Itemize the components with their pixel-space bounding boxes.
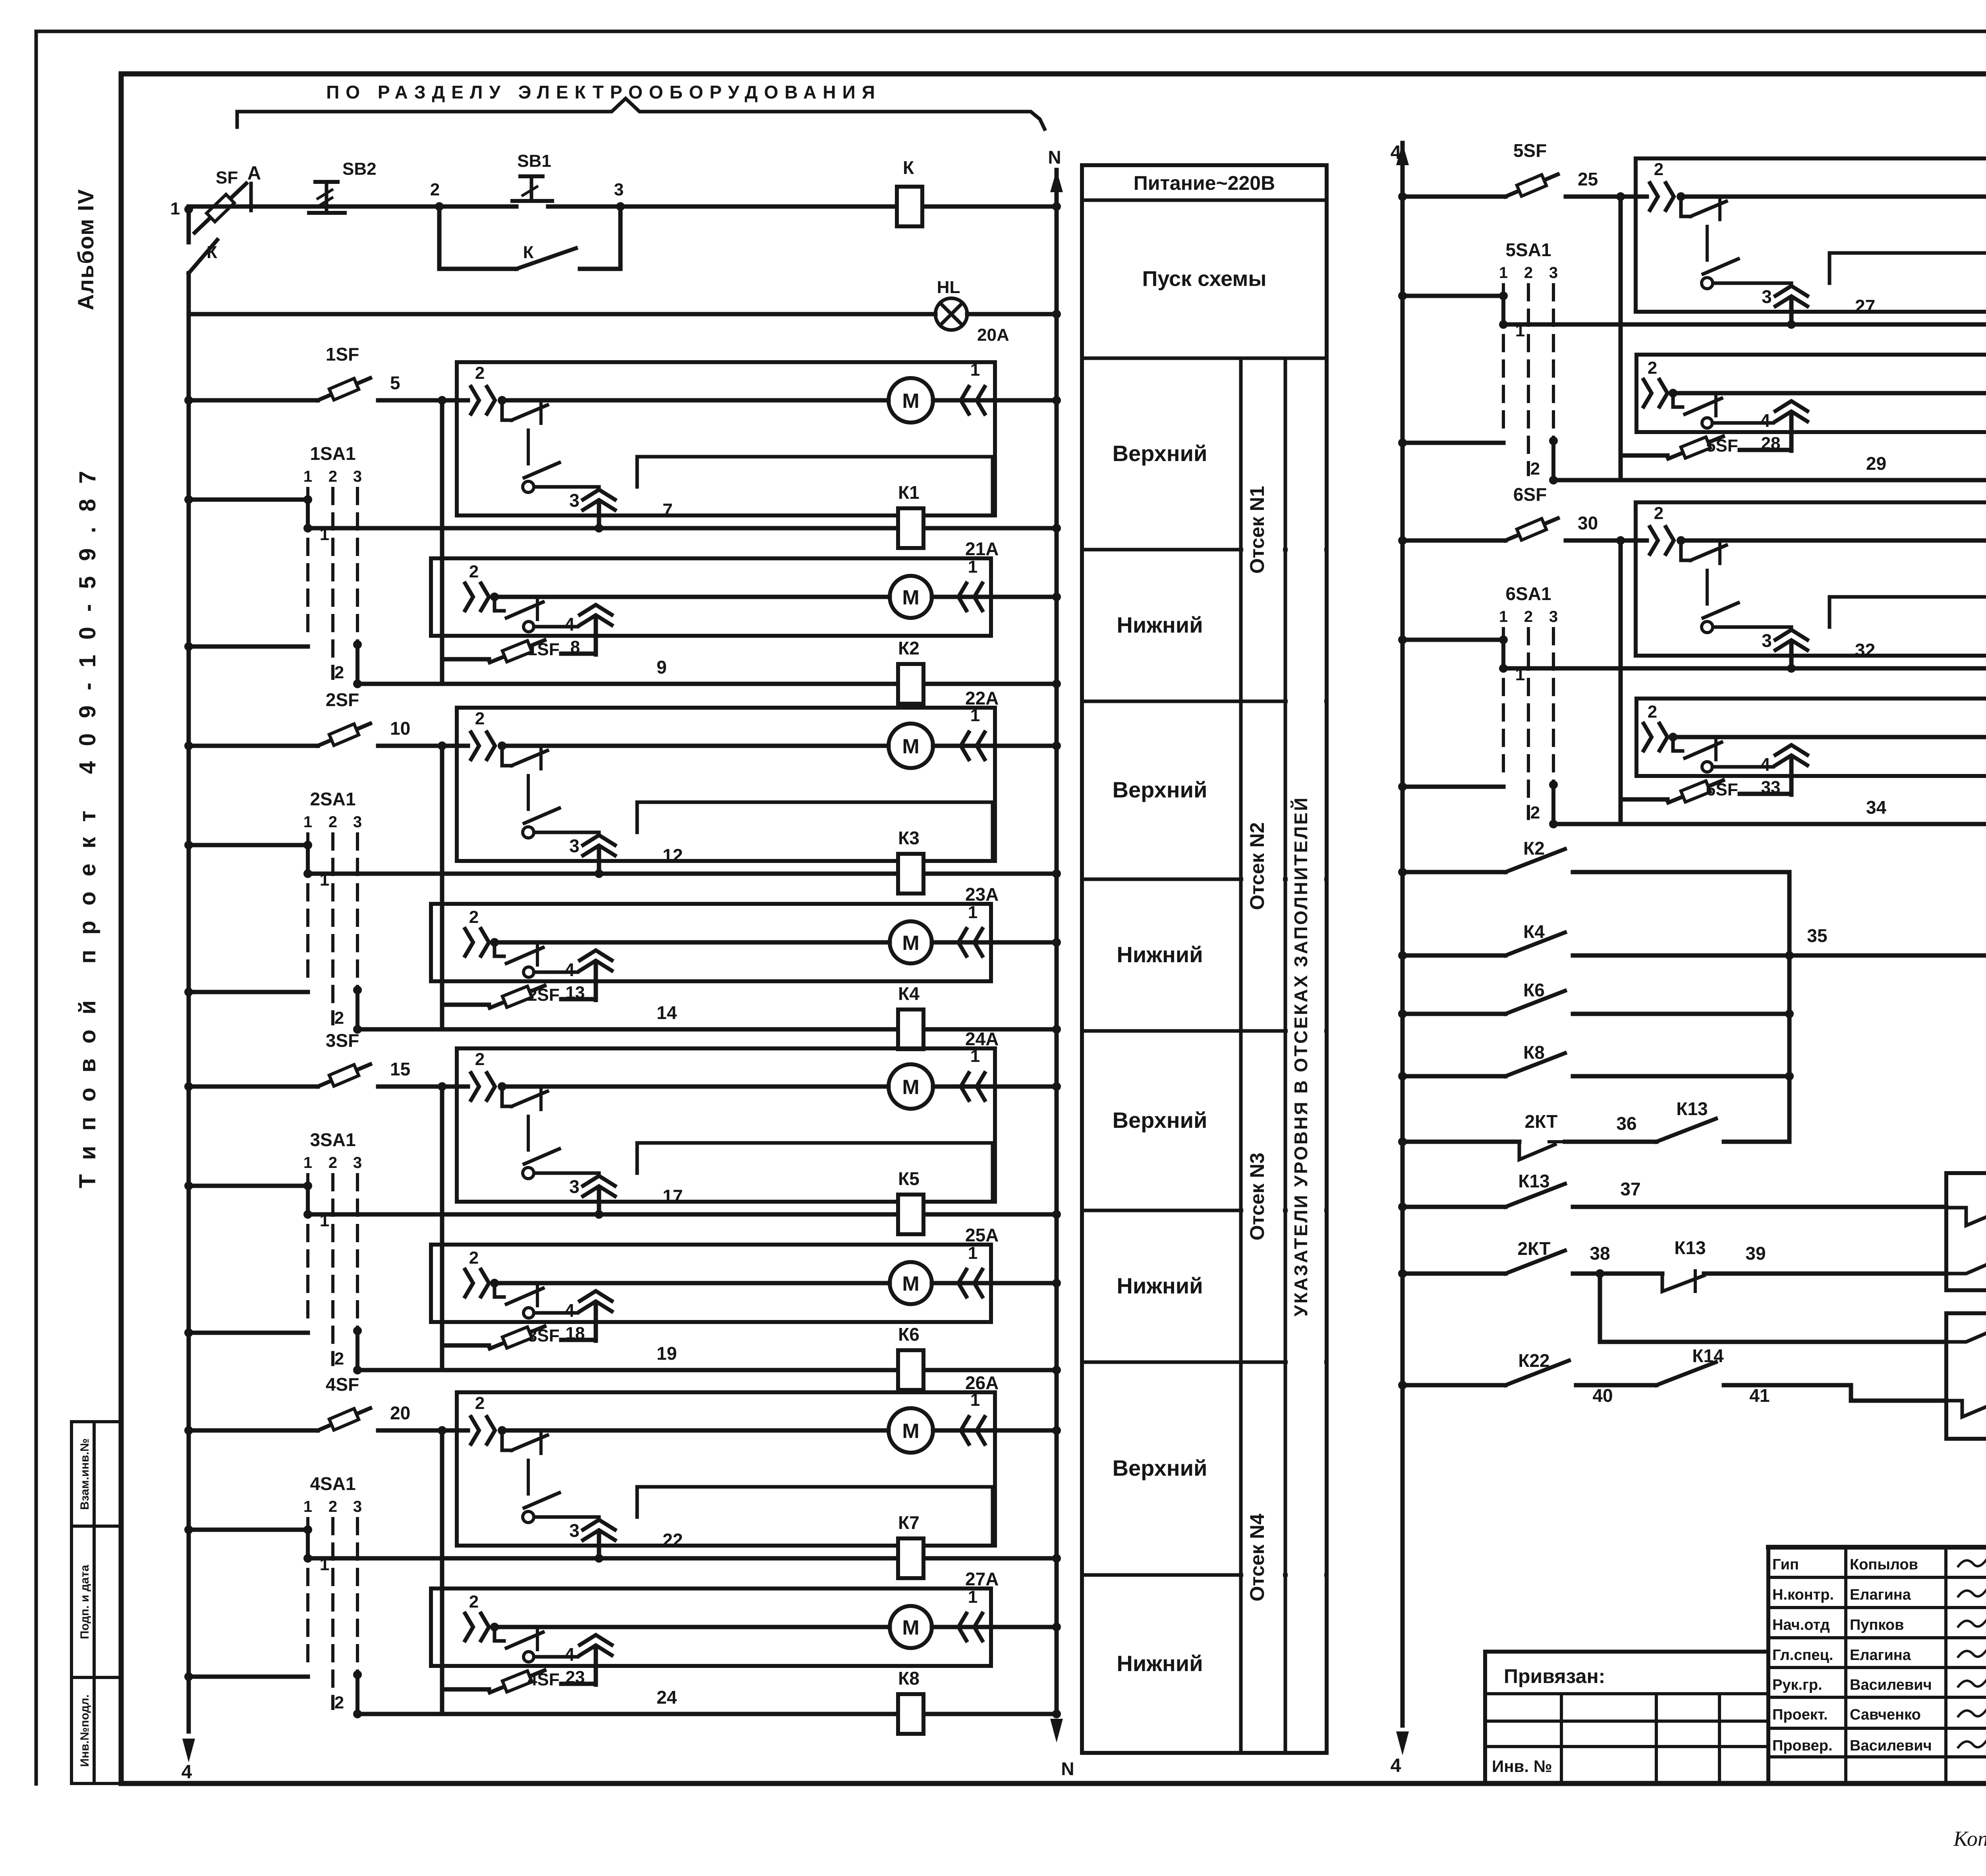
contact К6 rung [1398, 980, 1794, 1018]
svg-text:Гип: Гип [1772, 1556, 1799, 1573]
svg-text:14: 14 [657, 1002, 677, 1023]
middle table frame [1082, 165, 1327, 1753]
svg-text:М: М [902, 1272, 919, 1295]
middle table row label Нижний 4 [1117, 1651, 1203, 1676]
svg-text:1: 1 [968, 557, 978, 577]
svg-text:К4: К4 [1523, 921, 1545, 942]
coil К8 [898, 1668, 923, 1734]
svg-text:36: 36 [1616, 1113, 1636, 1134]
svg-text:SB1: SB1 [517, 151, 551, 171]
contact 2КТ rung 38 [1398, 1238, 1610, 1278]
svg-text:3: 3 [353, 813, 362, 831]
svg-text:25: 25 [1578, 169, 1598, 189]
svg-text:К: К [207, 243, 217, 262]
svg-text:К6: К6 [898, 1324, 920, 1345]
svg-text:SF: SF [216, 168, 238, 187]
svg-text:4: 4 [182, 1762, 192, 1783]
svg-text:1: 1 [320, 870, 329, 890]
svg-text:1: 1 [970, 1390, 980, 1410]
wire 27 [1503, 296, 1986, 329]
sensor contacts upper box 6 [1636, 504, 1791, 633]
signature row Нач.отд Пупков [1772, 1616, 1986, 1633]
svg-text:Провер.: Провер. [1772, 1737, 1833, 1754]
svg-text:М: М [902, 735, 919, 758]
motor M upper 1 () [502, 378, 933, 423]
svg-text:1SF: 1SF [326, 344, 359, 365]
node 1 on left bus [170, 199, 193, 218]
svg-text:К2: К2 [1523, 838, 1545, 859]
bypass breaker 5SF (wire 28) [1621, 434, 1791, 459]
svg-text:4SF: 4SF [326, 1374, 359, 1395]
svg-text:5: 5 [390, 372, 400, 393]
svg-text:ПО РАЗДЕЛУ ЭЛЕКТРООБОРУДОВАН: ПО РАЗДЕЛУ ЭЛЕКТРООБОРУДОВАНИЯ [326, 82, 881, 102]
svg-text:Отсек N4: Отсек N4 [1246, 1513, 1268, 1601]
svg-text:2КТ: 2КТ [1525, 1111, 1558, 1132]
sensor contacts lower box 3 [465, 1248, 578, 1318]
selector 5SA1 pole 1 (node 1) [1398, 291, 1525, 340]
svg-text:20: 20 [390, 1403, 410, 1423]
svg-text:Привязан:: Привязан: [1504, 1665, 1605, 1687]
arrow contact 1 upper 4 [933, 1390, 1061, 1444]
breaker SF on left bus [195, 168, 246, 233]
shelf wire upper box 6 [1830, 597, 1986, 654]
svg-text:2: 2 [1530, 803, 1540, 822]
wire 24 [357, 1687, 1061, 1718]
svg-text:М: М [902, 932, 919, 955]
middle table label Отсек N1 [1246, 486, 1268, 573]
selector 6SA1 [1499, 583, 1558, 818]
title block top line [1768, 1545, 1986, 1550]
svg-text:2: 2 [328, 468, 337, 485]
feed-down wire 1 (to lower box and wire 9) [440, 400, 444, 684]
coil К2 [898, 638, 923, 704]
coil K [897, 157, 922, 226]
selector 1SA1 pole 2 (node 2) [184, 640, 362, 688]
svg-text:21А: 21А [965, 538, 999, 559]
svg-text:32: 32 [1855, 640, 1875, 660]
svg-text:23А: 23А [965, 884, 999, 905]
svg-text:3SF: 3SF [326, 1030, 359, 1051]
middle table row label Нижний 2 [1117, 942, 1203, 967]
self-hold contact K branch [439, 207, 620, 269]
sensor contacts upper box 2 [457, 709, 599, 838]
svg-text:К4: К4 [898, 983, 920, 1004]
level arrow 4 lower box 5 [1760, 401, 1807, 451]
upper level-sensor box Отсек N3 Верхний [457, 1029, 999, 1202]
signature row Н.контр. Елагина [1772, 1586, 1986, 1603]
svg-text:6SF: 6SF [1513, 484, 1547, 505]
svg-text:1: 1 [970, 360, 980, 380]
coil К3 [898, 828, 923, 894]
svg-text:М: М [902, 586, 919, 609]
svg-text:3: 3 [353, 1154, 362, 1172]
К14 internals [1946, 1183, 1986, 1274]
motor M upper 6 (30А) [1681, 518, 1986, 563]
wire rung 5SF to box [1616, 192, 1636, 201]
svg-text:Отсек N3: Отсек N3 [1246, 1152, 1268, 1240]
svg-text:2SF: 2SF [326, 689, 359, 710]
svg-text:10: 10 [390, 718, 410, 739]
selector 3SA1 [303, 1129, 362, 1365]
wire 19 [357, 1343, 1061, 1374]
svg-text:9: 9 [657, 657, 667, 677]
svg-text:2: 2 [1648, 358, 1657, 378]
svg-text:2: 2 [1530, 459, 1540, 479]
svg-text:3: 3 [353, 1498, 362, 1515]
level arrow 3 upper box 3 [569, 1176, 615, 1214]
arrow contact 1 upper 1 [933, 360, 1061, 414]
shelf wire upper box 4 [637, 1487, 993, 1544]
svg-text:К2: К2 [898, 638, 920, 658]
handwritten Коп [1953, 1827, 1986, 1851]
svg-text:1SF: 1SF [527, 640, 560, 659]
svg-text:4SA1: 4SA1 [310, 1473, 355, 1494]
margin label Альбом IV [73, 189, 98, 310]
sensor contacts lower box 4 [465, 1592, 578, 1662]
svg-text:Отсек N1: Отсек N1 [1246, 486, 1268, 573]
middle table inner columns [1241, 358, 1324, 1753]
svg-text:К14: К14 [1692, 1345, 1724, 1366]
svg-text:24: 24 [657, 1687, 677, 1708]
svg-text:4: 4 [564, 1300, 575, 1321]
level arrow 4 lower box 2 [564, 950, 612, 1000]
svg-text:4: 4 [564, 1644, 575, 1665]
svg-text:1: 1 [1499, 608, 1508, 625]
svg-text:1: 1 [968, 1587, 978, 1607]
node A label (top of left bus) [247, 163, 261, 210]
svg-text:Василевич: Василевич [1850, 1737, 1932, 1754]
arrow contact 1 upper 3 [933, 1046, 1061, 1100]
breaker 4SF [184, 1374, 442, 1435]
svg-text:Савченко: Савченко [1850, 1706, 1921, 1723]
feed-down wire 2 (to lower box and wire 14) [440, 746, 444, 1029]
svg-text:К3: К3 [898, 828, 920, 848]
wire collector (К2..К8 to 35) [1787, 872, 1792, 1142]
svg-text:Н.контр.: Н.контр. [1772, 1586, 1834, 1603]
selector 2SA1 pole 2 (node 2) [184, 986, 362, 1034]
level arrow 3 upper box 4 [569, 1520, 615, 1558]
feed-down wire 5 (to lower box and wire 29) [1619, 197, 1623, 480]
bypass breaker 4SF (wire 23) [442, 1668, 596, 1693]
svg-text:2: 2 [334, 1349, 344, 1368]
svg-text:М: М [902, 1076, 919, 1099]
level arrow 3 upper box 2 [569, 835, 615, 874]
svg-text:HL: HL [937, 278, 960, 297]
svg-text:1: 1 [970, 706, 980, 725]
svg-text:3: 3 [1762, 286, 1772, 307]
svg-text:3SA1: 3SA1 [310, 1129, 355, 1150]
contact К13 rung 37 [1398, 1171, 1946, 1211]
svg-text:39: 39 [1745, 1243, 1766, 1264]
sensor contacts upper box 1 [457, 363, 599, 492]
svg-text:34: 34 [1866, 797, 1887, 818]
svg-text:Проект.: Проект. [1772, 1706, 1828, 1723]
svg-text:4: 4 [564, 959, 575, 980]
svg-text:К13: К13 [1676, 1098, 1708, 1119]
margin stamp boxes (Взам.инв.№ / Подп. и дата / Инв.№ подл.) [71, 1422, 121, 1783]
arrow contact 1 lower 2 [932, 903, 1061, 956]
svg-text:4: 4 [1391, 1755, 1401, 1776]
svg-text:2: 2 [1648, 702, 1657, 722]
wire 12 [308, 845, 1061, 878]
svg-text:Нач.отд: Нач.отд [1772, 1617, 1830, 1633]
svg-text:1: 1 [320, 525, 329, 544]
svg-text:3: 3 [569, 1520, 580, 1541]
contact К14 rung 41 [1656, 1345, 1946, 1406]
pushbutton SB2 (stop) [309, 159, 377, 213]
level arrow 4 lower box 1 [564, 605, 612, 654]
svg-text:15: 15 [390, 1059, 410, 1079]
bypass breaker 2SF (wire 13) [442, 983, 596, 1008]
svg-text:41: 41 [1749, 1385, 1770, 1406]
coil К4 [898, 983, 923, 1049]
svg-text:1: 1 [170, 199, 180, 218]
svg-text:20А: 20А [977, 325, 1009, 345]
selector 3SA1 pole 2 (node 2) [184, 1326, 362, 1374]
svg-text:5SF: 5SF [1513, 140, 1547, 161]
svg-text:2: 2 [328, 813, 337, 831]
left neutral bus N vertical [1048, 147, 1074, 1779]
svg-text:2: 2 [469, 907, 479, 927]
contact К13 (NC) rung 39 [1600, 1237, 1946, 1291]
svg-text:37: 37 [1620, 1179, 1640, 1199]
svg-text:Василевич: Василевич [1850, 1677, 1932, 1693]
coil К5 [898, 1168, 923, 1234]
svg-text:Типовой проект 409-10-59.87: Типовой проект 409-10-59.87 [75, 456, 100, 1188]
svg-text:М: М [902, 1420, 919, 1443]
motor M lower 5 (29А) [1673, 372, 1986, 414]
svg-text:7: 7 [663, 500, 673, 520]
motor M lower 6 (31А) [1673, 716, 1986, 758]
svg-text:Нижний: Нижний [1117, 1651, 1203, 1676]
relay box К14 [1946, 1147, 1986, 1290]
svg-text:Копылов: Копылов [1850, 1556, 1918, 1573]
svg-text:2SA1: 2SA1 [310, 789, 355, 809]
upper level-sensor box Отсек N4 Верхний [457, 1372, 999, 1546]
motor M lower 1 (21А) [495, 576, 932, 618]
svg-text:УКАЗАТЕЛИ УРОВНЯ В ОТСЕК: УКАЗАТЕЛИ УРОВНЯ В ОТСЕКАХ ЗАПОЛНИТЕЛЕЙ [1291, 796, 1311, 1316]
svg-text:К7: К7 [898, 1512, 920, 1533]
wire rung 2SF to box [438, 741, 457, 750]
motor M upper 4 (26А) [502, 1408, 933, 1453]
selector 1SA1 [303, 443, 362, 678]
svg-text:N: N [1061, 1758, 1074, 1779]
svg-text:1: 1 [303, 1498, 312, 1515]
margin label Типовой проект 409-10-59.87 [75, 456, 100, 1188]
svg-text:2: 2 [469, 1592, 479, 1612]
svg-text:25А: 25А [965, 1225, 999, 1245]
svg-text:27: 27 [1855, 296, 1875, 317]
upper level-sensor box Отсек N2 Верхний [457, 688, 999, 861]
svg-text:Коп. Реий: Коп. Реий [1953, 1827, 1986, 1851]
svg-text:5SF: 5SF [1706, 436, 1738, 455]
svg-text:К1: К1 [898, 482, 920, 503]
svg-text:2: 2 [475, 1393, 485, 1413]
svg-text:1: 1 [968, 1243, 978, 1263]
wire 34 [1553, 797, 1986, 828]
wire 17 [308, 1186, 1061, 1219]
selector 1SA1 pole 1 (node 1) [184, 495, 329, 544]
sensor contacts upper box 4 [457, 1393, 599, 1523]
sensor contacts lower box 2 [465, 907, 578, 977]
svg-text:2: 2 [1524, 264, 1533, 282]
middle table row label Верхний 3 [1113, 1108, 1207, 1133]
lower level-sensor box Отсек N3 Нижний [431, 1225, 999, 1322]
wire 22 [308, 1530, 1061, 1563]
selector 2SA1 [303, 789, 362, 1024]
svg-text:Пупков: Пупков [1850, 1617, 1904, 1633]
feed-down wire 3 (to lower box and wire 19) [440, 1087, 444, 1370]
wire start rung [189, 202, 1061, 211]
svg-text:Отсек N2: Отсек N2 [1246, 822, 1268, 910]
selector 3SA1 pole 1 (node 1) [184, 1181, 329, 1230]
svg-text:4SF: 4SF [527, 1670, 560, 1689]
svg-text:2: 2 [475, 363, 485, 383]
svg-text:30: 30 [1578, 513, 1598, 533]
svg-text:Пуск схемы: Пуск схемы [1142, 267, 1267, 291]
signature row Гип Копылов [1772, 1556, 1986, 1573]
svg-text:Верхний: Верхний [1113, 777, 1207, 802]
middle table label Питание ~220В [1134, 172, 1275, 194]
pushbutton SB1 (start) [512, 151, 552, 201]
breaker 5SF [1398, 140, 1621, 201]
svg-text:Верхний: Верхний [1113, 1455, 1207, 1480]
wire 7 [308, 500, 1061, 533]
svg-text:1SA1: 1SA1 [310, 443, 355, 464]
arrow contact 1 lower 4 [932, 1587, 1061, 1641]
svg-text:М: М [902, 390, 919, 413]
svg-text:6SA1: 6SA1 [1505, 583, 1551, 604]
middle table row label Нижний 3 [1117, 1273, 1203, 1298]
level arrow 4 lower box 3 [564, 1291, 612, 1341]
contact 2КТ rung 36 [1398, 1111, 1656, 1160]
svg-text:2: 2 [1524, 608, 1533, 625]
left bus A vertical [182, 314, 195, 1783]
svg-text:40: 40 [1592, 1385, 1613, 1406]
svg-text:Инв. №: Инв. № [1492, 1757, 1552, 1776]
feed-down wire 6 (to lower box and wire 34) [1619, 540, 1623, 824]
svg-text:2: 2 [328, 1498, 337, 1515]
svg-text:Рук.гр.: Рук.гр. [1772, 1677, 1822, 1693]
svg-text:Подп. и дата: Подп. и дата [78, 1565, 91, 1639]
sensor contacts lower box 1 [465, 562, 578, 632]
svg-text:3: 3 [1549, 264, 1558, 282]
svg-text:К13: К13 [1674, 1237, 1706, 1258]
node 2 on start rung [430, 180, 444, 211]
svg-text:1: 1 [320, 1555, 329, 1574]
svg-text:Верхний: Верхний [1113, 441, 1207, 466]
svg-text:3: 3 [569, 836, 580, 856]
svg-text:6SF: 6SF [1706, 780, 1738, 799]
selector 5SA1 pole 2 (node 2) [1398, 436, 1558, 484]
svg-text:К8: К8 [898, 1668, 920, 1689]
motor M lower 3 (25А) [495, 1262, 932, 1304]
svg-text:2SF: 2SF [527, 985, 560, 1005]
signature row Проект. Савченко [1772, 1706, 1986, 1723]
svg-text:К6: К6 [1523, 980, 1545, 1000]
lower level-sensor box Отсек N6 Нижний [1636, 679, 1986, 776]
svg-text:2КТ: 2КТ [1518, 1238, 1551, 1259]
svg-text:1: 1 [1515, 665, 1525, 684]
middle table label Отсек N3 [1246, 1152, 1268, 1240]
middle table row label Нижний 1 [1117, 612, 1203, 637]
К15 internals [1946, 1326, 1986, 1428]
wire 9 [357, 657, 1061, 688]
lamp HL [935, 278, 967, 330]
wire rung 3SF to box [438, 1082, 457, 1091]
upper level-sensor box Отсек N6 Верхний [1636, 483, 1986, 656]
svg-text:1: 1 [320, 1211, 329, 1230]
svg-text:2: 2 [475, 1050, 485, 1069]
wire rung 4SF to box [438, 1426, 457, 1435]
selector 4SA1 [303, 1473, 362, 1708]
selector 6SA1 pole 1 (node 1) [1398, 635, 1525, 684]
svg-text:А: А [247, 163, 261, 184]
middle table row label Верхний 1 [1113, 441, 1207, 466]
svg-text:3: 3 [353, 468, 362, 485]
selector 5SA1 [1499, 239, 1558, 475]
lower level-sensor box Отсек N1 Нижний [431, 538, 999, 636]
svg-text:2: 2 [430, 180, 440, 199]
svg-text:2: 2 [469, 1248, 479, 1268]
level arrow 4 lower box 4 [564, 1635, 612, 1685]
lower level-sensor box Отсек N4 Нижний [431, 1569, 999, 1666]
sensor contacts lower box 6 [1644, 702, 1773, 772]
shelf wire upper box 5 [1830, 253, 1986, 310]
wire 32 [1503, 640, 1986, 673]
svg-text:2: 2 [1654, 504, 1663, 523]
svg-text:1: 1 [968, 903, 978, 922]
motor M lower 2 (23А) [495, 921, 932, 963]
brace over left schematic [237, 98, 1045, 129]
middle table row label Верхний 4 [1113, 1455, 1207, 1480]
svg-text:1: 1 [303, 468, 312, 485]
breaker 1SF [184, 344, 442, 405]
motor M upper 5 (28А) [1681, 174, 1986, 219]
lower level-sensor box Отсек N2 Нижний [431, 884, 999, 981]
selector 6SA1 pole 2 (node 2) [1398, 780, 1558, 828]
svg-text:3SF: 3SF [527, 1326, 560, 1345]
middle table label Отсек N2 [1246, 822, 1268, 910]
svg-text:3: 3 [1762, 630, 1772, 651]
middle table label Пуск схемы [1142, 267, 1267, 291]
wire lamp rung 20А [189, 310, 1061, 345]
svg-text:19: 19 [657, 1343, 677, 1364]
wire 29 [1553, 453, 1986, 484]
svg-text:29: 29 [1866, 453, 1886, 474]
svg-text:К: К [523, 243, 534, 262]
svg-text:Нижний: Нижний [1117, 1273, 1203, 1298]
middle table row label Верхний 2 [1113, 777, 1207, 802]
relay box К15 [1946, 1288, 1986, 1439]
svg-text:К5: К5 [898, 1168, 920, 1189]
coil К13 (wire 35) [1789, 901, 1986, 983]
svg-text:1: 1 [970, 1046, 980, 1066]
shelf wire upper box 2 [637, 802, 993, 859]
svg-text:3: 3 [1549, 608, 1558, 625]
coil К6 [898, 1324, 923, 1390]
upper level-sensor box Отсек N1 Верхний [457, 362, 995, 515]
wire 14 [357, 1002, 1061, 1034]
svg-text:5SA1: 5SA1 [1505, 239, 1551, 260]
sensor contacts upper box 5 [1636, 160, 1791, 289]
breaker 3SF [184, 1030, 442, 1091]
coil К7 [898, 1512, 923, 1578]
selector 2SA1 pole 1 (node 1) [184, 841, 329, 890]
svg-text:2: 2 [469, 562, 479, 581]
level arrow 4 lower box 6 [1760, 745, 1807, 795]
node 3 on start rung [614, 180, 625, 211]
